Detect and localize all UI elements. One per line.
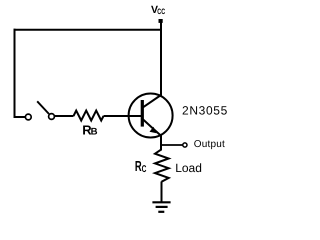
svg-text:C: C — [142, 164, 147, 175]
wire emitter vertical — [160, 135, 162, 151]
wire bottom-left to switch — [14, 116, 26, 118]
switch lever — [37, 101, 49, 114]
transistor Q1 circle — [129, 94, 173, 138]
wire top horizontal Vcc rail — [14, 29, 162, 31]
svg-text:Output: Output — [194, 139, 225, 150]
transistor Q1 emitter stroke — [142, 119, 161, 136]
resistor RC — [155, 149, 169, 182]
transistor Q1 base bar — [141, 100, 144, 127]
svg-text:B: B — [91, 127, 98, 138]
resistor RB — [74, 111, 104, 121]
wire left vertical — [14, 29, 16, 118]
ground — [152, 202, 170, 212]
label Output — [194, 139, 225, 150]
wire switch to RB — [55, 115, 74, 117]
label RB — [82, 122, 92, 137]
switch terminal right circle — [49, 114, 55, 120]
label Load — [175, 161, 202, 175]
wire collector vertical — [160, 20, 162, 97]
label RC — [135, 159, 142, 175]
svg-text:CC: CC — [157, 7, 165, 16]
wire RB to base — [104, 115, 143, 117]
label 2N3055 — [182, 104, 228, 118]
transistor Q1 emitter arrowhead — [150, 127, 157, 134]
svg-text:2N3055: 2N3055 — [182, 104, 228, 118]
svg-text:Load: Load — [175, 161, 202, 175]
switch terminal left circle — [25, 114, 31, 120]
wire output tee — [161, 144, 183, 146]
transistor Q1 collector stroke — [142, 95, 161, 108]
junction dot Vcc — [159, 19, 163, 23]
wire RC to ground — [161, 182, 163, 204]
label Vcc — [151, 4, 158, 16]
output terminal circle — [183, 143, 187, 147]
